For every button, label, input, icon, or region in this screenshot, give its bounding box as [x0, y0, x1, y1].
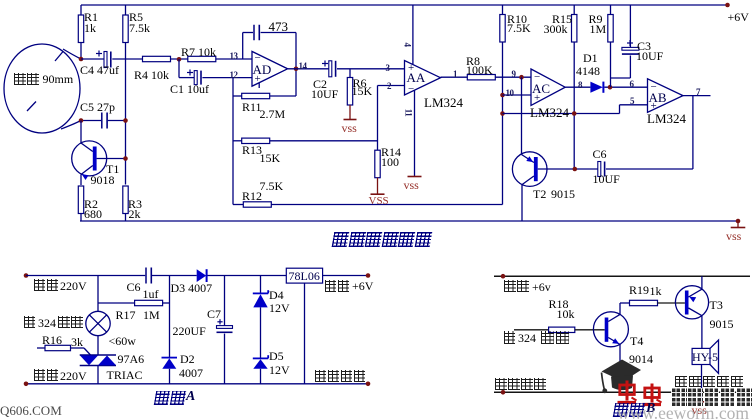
capacitor C5: [81, 120, 101, 122]
wire T1 collector: [80, 121, 82, 144]
wire AA pin4 to +6V rail: [412, 5, 414, 65]
resistor R7: [188, 56, 216, 61]
label HY-5: [692, 351, 718, 363]
wire lamp to TRIAC: [97, 336, 99, 355]
wire C7a column: [224, 276, 226, 327]
regulator 78L06: [286, 268, 322, 283]
node output +6V terminal: [366, 273, 371, 278]
diode D2 4007: [162, 357, 178, 359]
label R16 value: [42, 334, 62, 346]
label lamp value: [109, 335, 136, 347]
wire T4 emitter to negative rail: [619, 344, 621, 392]
label 78L06: [289, 270, 320, 282]
zener D5 12V: [253, 357, 268, 359]
ground vss pin11: [408, 176, 422, 178]
label loudspeaker: [675, 376, 745, 388]
transistor T4 9014: [593, 312, 628, 347]
resistor R12: [233, 204, 243, 206]
wire speaker to vss ground: [701, 365, 703, 402]
wire AD output to C2: [288, 68, 330, 70]
label D2 value: [180, 353, 195, 365]
wire T2 emitter column: [521, 77, 523, 154]
label R4 value: [134, 69, 169, 81]
op-amp label AD: [253, 63, 272, 76]
node C5 left junction: [79, 118, 84, 123]
resistor R17: [98, 302, 135, 304]
wire C1 branch from node C: [178, 59, 180, 78]
label T3: [710, 299, 723, 311]
wire T2 base to C6: [538, 168, 598, 170]
wire T1 base to R5/R3 column: [97, 158, 126, 160]
label C2 value: [313, 78, 327, 90]
label C7 value 473: [269, 20, 289, 33]
wire circuit B negative rail: [494, 391, 750, 393]
wire T3 collector to speaker: [701, 316, 703, 349]
ground label vss under R6: [342, 122, 357, 134]
label connect-324-output B: [504, 331, 517, 344]
wire +6V top supply rail: [81, 4, 728, 6]
wire AB output feedback down to C6: [692, 96, 694, 169]
label R1 value: [84, 11, 98, 23]
node T1 base junction: [123, 156, 128, 161]
label antenna diameter: [14, 73, 40, 86]
node pin9/T2 emitter: [519, 75, 524, 80]
watermark red character bug 2: [643, 384, 662, 405]
op-amp label AA: [407, 71, 426, 84]
label C4 value: [80, 64, 119, 76]
wire R16 to TRIAC gate: [84, 348, 91, 355]
wire R19 to T3 base: [658, 302, 685, 304]
op-amp label AC: [532, 82, 550, 95]
resistor R6: [349, 69, 351, 78]
capacitor C7 feedback 473: [242, 33, 244, 60]
diode D3 4007: [197, 269, 207, 282]
wire AB output pin7: [683, 95, 711, 97]
wire C3 to D1 node: [629, 56, 631, 79]
label input 220V top: [34, 279, 60, 292]
label R9 value: [589, 13, 603, 25]
label +6V supply: [728, 11, 749, 23]
label R11 value: [242, 101, 262, 113]
label triac type: [118, 353, 145, 365]
speaker HY-5: [692, 348, 710, 364]
wire AA pin2 input: [378, 85, 405, 87]
label T1: [106, 163, 119, 175]
node bias junction R10/R15 row: [500, 111, 505, 116]
node power +6v: [501, 274, 506, 279]
label D4 value: [269, 289, 284, 301]
diode D1 4148: [590, 82, 602, 93]
wire R13 to AA pin2 column: [270, 140, 378, 142]
title circuit A: [153, 391, 186, 405]
watermark red character bug 1: [618, 381, 637, 403]
resistor R2: [78, 186, 83, 214]
ground VSS under R14: [377, 178, 379, 194]
op-amp U1A AD: [252, 51, 288, 86]
op-amp label AB: [649, 91, 667, 104]
label R6 value: [353, 77, 367, 89]
wire D4/D5 column: [260, 276, 262, 294]
wire T2 collector to bottom rail: [521, 185, 523, 221]
wire lamp column: [97, 276, 99, 312]
ground vss right end of bottom rail: [736, 219, 741, 224]
wire R4 to R7: [171, 58, 188, 60]
op-amp U1B AA: [405, 61, 441, 96]
antenna disc 90mm: [4, 44, 80, 133]
wire circuit A bottom line: [26, 383, 368, 385]
label D3 value: [171, 282, 213, 294]
label C1 value: [170, 83, 209, 95]
wire T3 emitter to rail: [701, 276, 703, 289]
label R2 value: [84, 198, 98, 210]
title microwave probe circuit: [332, 232, 434, 247]
watermark site name characters: [671, 388, 752, 408]
label D1 value: [583, 52, 598, 64]
wire AA output pin1 to R8: [441, 76, 468, 78]
label R15 value: [552, 13, 572, 25]
node T2 base/R15/C6: [573, 167, 578, 172]
label input 220V bottom: [34, 369, 60, 382]
wire C2 to AA pin3: [337, 68, 405, 70]
resistor R8: [467, 75, 495, 80]
title circuit B: [612, 403, 645, 417]
wire R7 to AD pin13: [216, 58, 252, 60]
resistor R4: [143, 56, 171, 61]
capacitor C1: [194, 71, 197, 85]
label LM324 under AC: [530, 106, 569, 119]
wire T1 emitter to R2: [80, 175, 82, 186]
wire 78L06 ground pin: [304, 283, 306, 384]
wire circuit A top line: [26, 275, 145, 277]
label LM324 under AB: [647, 112, 686, 125]
label R14 value: [381, 146, 401, 158]
transistor T3 9015: [675, 286, 708, 319]
wire AC output pin8 to D1: [565, 86, 590, 88]
resistor R3: [123, 186, 128, 214]
label R12 value: [260, 180, 284, 192]
node D1/R9/C3 junction: [608, 85, 613, 90]
wire 78L06 output to +6V terminal: [323, 275, 368, 277]
transistor T2 9015: [512, 152, 547, 187]
ground vss under speaker: [694, 401, 709, 403]
wire T4 collector to R19: [619, 303, 621, 314]
label R10 value: [507, 13, 527, 25]
wire pin2 column down to R14: [377, 86, 379, 151]
label power +6v: [504, 280, 530, 293]
wire antenna to node A: [63, 49, 81, 59]
resistor R15: [573, 5, 575, 15]
wire pin12 column down to R11/R13/R12: [232, 78, 234, 205]
label R7 value: [181, 46, 216, 58]
label R8 value: [466, 55, 480, 67]
watermark graduation cap: [602, 360, 642, 382]
label R19 value: [629, 284, 649, 296]
wire D2/R17 column: [169, 276, 171, 358]
ground label VSS under R14: [369, 196, 389, 207]
pin number labels: [230, 52, 238, 61]
capacitor C3: [629, 5, 631, 48]
label power negative: [495, 378, 547, 391]
node A junction R1/C4/antenna: [79, 57, 84, 62]
watermark url: [617, 405, 749, 419]
label D5 value: [269, 350, 284, 362]
node AD output pin14: [294, 67, 299, 72]
ground label vss bottom rail: [726, 230, 741, 242]
wire VSS bottom rail of probe circuit: [80, 220, 738, 222]
capacitor C2: [329, 61, 332, 77]
label R3 value: [128, 198, 142, 210]
label output +6V: [325, 280, 351, 293]
node input220V top terminal: [24, 273, 29, 278]
resistor R11: [233, 95, 242, 97]
resistor R5: [125, 5, 127, 15]
wire C1 to AD pin12: [202, 77, 252, 79]
label C7a value: [207, 308, 221, 320]
node +6V: [725, 3, 730, 8]
wire R9 down to D1 node: [610, 42, 612, 87]
site watermark Q606.COM: [0, 404, 62, 417]
ground label vss pin11: [404, 179, 419, 191]
wire R15 column down to T2 base node: [573, 42, 575, 169]
label R17 value: [116, 309, 136, 321]
wire D1 to AB pin6: [604, 86, 647, 88]
resistor R9: [610, 5, 612, 15]
label output negative: [315, 370, 367, 383]
label C6 value: [593, 148, 607, 160]
wire R10 column down to R12 row: [502, 42, 504, 205]
label T4: [630, 335, 643, 347]
wire antenna to node B: [61, 121, 81, 130]
resistor R19: [630, 300, 658, 305]
label C5 value: [80, 101, 115, 113]
label LM324 under AA: [424, 96, 463, 109]
ground label vss speaker: [692, 404, 707, 416]
label R5 value: [129, 11, 143, 23]
resistor R18: [514, 329, 549, 331]
label C6a value: [127, 281, 141, 293]
wire R12 to R10 column: [271, 204, 502, 206]
lamp <60w: [86, 311, 110, 335]
resistor R1: [80, 5, 82, 15]
label C3 value: [637, 40, 651, 52]
triac 97A6: [80, 354, 116, 356]
capacitor C6: [598, 162, 601, 177]
label T2: [533, 188, 546, 200]
wire TRIAC to bottom rail: [97, 366, 99, 385]
capacitor C4: [81, 58, 104, 60]
op-amp U1C AC: [531, 69, 565, 105]
wire R5 column down to C5 and T1 base: [125, 43, 127, 185]
capacitor C7a 220UF: [217, 326, 233, 329]
transistor T1 9018: [72, 141, 107, 176]
op-amp U1D AB: [648, 79, 684, 113]
node C junction R4/R7/C1: [177, 57, 182, 62]
label R18 value: [549, 298, 569, 310]
node R15/bias row: [572, 111, 577, 116]
ground vss under R6: [349, 105, 351, 119]
capacitor C6a 1uf: [145, 268, 147, 284]
zener D4 12V: [253, 292, 268, 294]
node power negative: [501, 390, 506, 395]
label connect-324-output: [24, 316, 37, 329]
wire C6 row to AB feedback: [606, 168, 693, 170]
node pin10 junction: [500, 93, 505, 98]
label R13 value: [242, 144, 262, 156]
resistor R13: [233, 140, 242, 142]
node input220V bottom terminal: [24, 382, 29, 387]
node output negative terminal: [366, 382, 371, 387]
wire bias node row to AB pin5: [503, 113, 620, 115]
wire pin10 to AC: [503, 94, 532, 96]
resistor R16: [37, 347, 45, 349]
node C5 right junction: [123, 118, 128, 123]
wire feedback down to output node: [295, 33, 297, 97]
wire circuit B +6v rail: [494, 275, 750, 277]
wire R8 to AC pin9: [495, 76, 531, 78]
resistor R14: [375, 150, 380, 178]
resistor R10: [502, 5, 504, 15]
wire AA pin11 to ground: [414, 91, 416, 177]
